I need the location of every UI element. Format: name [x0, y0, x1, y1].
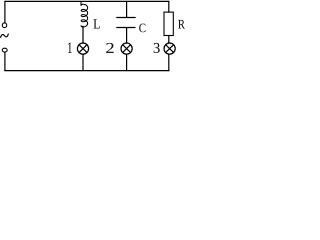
- label L: [94, 19, 100, 28]
- wire capacitor top stub: [126, 1, 128, 17]
- wire capacitor to lamp2: [126, 28, 128, 44]
- wire bottom rail: [5, 70, 169, 72]
- lamp 3 circle: [164, 43, 175, 54]
- lamp 2 cross: [123, 45, 131, 53]
- wire coil to lamp1: [82, 26, 84, 43]
- lamp 1 cross: [79, 45, 87, 53]
- wire lamp1 to bottom rail: [82, 54, 84, 70]
- lamp 1 circle: [77, 43, 88, 54]
- wire left column upper: [4, 1, 6, 23]
- capacitor C plate bottom: [117, 27, 135, 29]
- wire left column lower: [4, 52, 6, 70]
- terminal lower circle: [2, 48, 7, 52]
- AC source tilde: [1, 34, 9, 37]
- inductor L coil: [81, 1, 88, 27]
- label 3: [154, 43, 160, 53]
- label 1: [68, 43, 72, 53]
- label C: [139, 24, 145, 33]
- label R: [178, 20, 185, 29]
- wire resistor to lamp3: [168, 36, 170, 44]
- resistor R box: [164, 12, 173, 35]
- label 2: [106, 43, 114, 53]
- wire lamp2 to bottom rail: [126, 54, 128, 70]
- lamp 3 cross: [166, 45, 174, 53]
- wire top rail: [5, 0, 169, 2]
- terminal upper circle: [2, 23, 6, 28]
- lamp 2 circle: [121, 43, 132, 54]
- wire lamp3 to bottom rail: [168, 54, 170, 70]
- capacitor C plate top: [117, 17, 135, 19]
- wire resistor top stub: [168, 1, 170, 12]
